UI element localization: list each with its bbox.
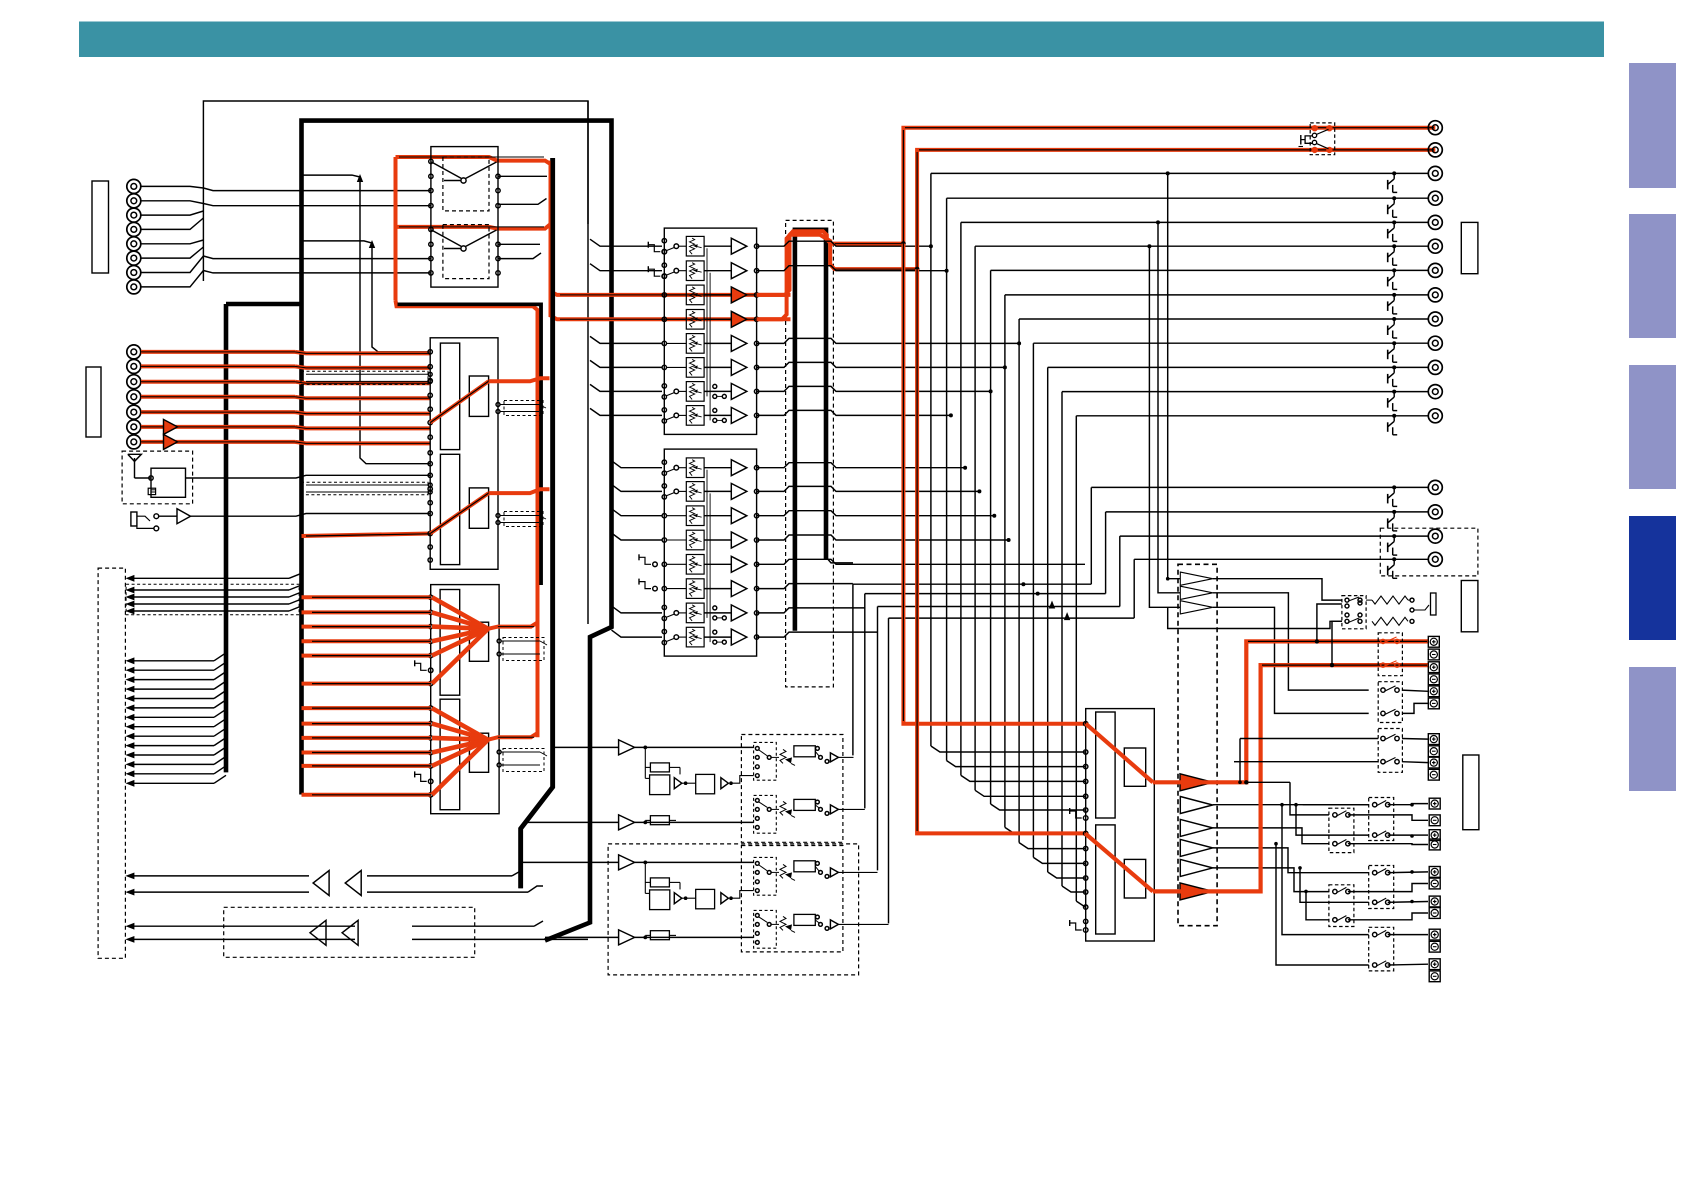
channel block 2 <box>662 449 759 656</box>
input connectors group 1 <box>127 179 141 294</box>
return path 2 <box>125 907 588 957</box>
sidebar tab 3 <box>1629 365 1676 489</box>
stin2 insert <box>496 512 546 527</box>
wires group1 to pan block <box>203 188 431 273</box>
bus riser wires <box>931 173 1086 907</box>
pan2 V <box>432 230 497 251</box>
red H2b hug <box>396 301 538 738</box>
red monitor cores <box>1248 641 1427 665</box>
master input pins <box>1070 722 1088 933</box>
stin fader 1 <box>440 343 459 450</box>
n dashed box <box>786 220 834 687</box>
wire thin bus drop <box>587 101 589 624</box>
mono mic input <box>131 509 191 531</box>
red rec cores <box>903 128 1434 831</box>
teal header bar <box>79 22 1604 58</box>
aux module A <box>526 740 865 833</box>
red rec bus L <box>901 128 1435 724</box>
monitor row wires <box>1166 577 1342 629</box>
mix1 insert <box>497 638 547 661</box>
right label box 3 <box>1463 755 1479 830</box>
mix fader 1 <box>440 590 460 696</box>
thick bus overlays <box>398 158 553 888</box>
red stin2 diag <box>430 493 488 533</box>
wire receiver out <box>186 475 431 478</box>
master pan L <box>1124 748 1145 786</box>
output row wires <box>931 173 1394 415</box>
gnd block1 <box>648 242 666 279</box>
wire after sum L <box>1246 781 1290 783</box>
aux B right dashed box <box>741 846 843 952</box>
wire monitor v1 <box>302 174 431 464</box>
wires input group1 fan <box>141 186 203 287</box>
mix2 insert <box>497 749 547 772</box>
wires strip feeds <box>590 239 662 637</box>
red stin1 out <box>489 378 550 381</box>
sidebar tab 2 <box>1629 214 1676 338</box>
switch boxes col x=1368.7 <box>1369 798 1394 971</box>
wire thin bus top <box>203 101 588 281</box>
right label box 2 <box>1461 581 1478 632</box>
monitor sum amps <box>1180 572 1368 713</box>
red wires bus to mix pins <box>302 597 431 795</box>
thick bus H2a <box>226 302 302 307</box>
pan1 dashed <box>443 157 489 211</box>
stin input pins <box>428 350 432 563</box>
summing dashed box <box>1178 564 1217 925</box>
stin block box <box>430 338 498 570</box>
strip output wires <box>757 241 1085 637</box>
monitor dots <box>1244 639 1334 784</box>
channel block 1 <box>662 228 759 434</box>
rec speaker terminals <box>1429 798 1440 982</box>
red mix fan 1 <box>432 597 488 795</box>
red over n 1 <box>757 231 904 295</box>
input group 2 label box <box>86 367 101 437</box>
master fader R <box>1096 825 1115 934</box>
mix block box <box>431 585 499 814</box>
red mix out 1 <box>488 623 538 629</box>
thick bus V1b diag <box>521 158 553 888</box>
switch boxes col x=1328.9 <box>1329 808 1354 926</box>
aux bus rows <box>826 487 1134 620</box>
lower monitor speakers <box>1234 682 1439 784</box>
mix input pins <box>415 595 433 797</box>
wires pan pins right <box>498 176 547 258</box>
wire mono to strip <box>191 514 431 517</box>
red wires group 2 <box>141 352 295 442</box>
input group 1 label box <box>92 181 109 273</box>
red pan1 feed <box>396 157 551 164</box>
red stin1 diag <box>430 381 488 422</box>
red exit row3 <box>551 292 791 295</box>
stin insert loop 1 <box>301 371 432 384</box>
monitor bus drops <box>1147 171 1180 607</box>
stin insert loop 2 <box>301 482 432 494</box>
wire monitor v2 <box>302 240 431 352</box>
wireless receiver box <box>122 451 193 504</box>
pan block input pins <box>429 159 433 275</box>
right label box 1 <box>1461 222 1478 273</box>
monitor out rows <box>1091 487 1394 559</box>
gnd block2 rows <box>639 554 657 591</box>
red master diag L <box>1086 724 1153 783</box>
master box <box>1086 709 1155 941</box>
mix pan 2 <box>469 733 488 772</box>
red rec bus R <box>915 150 1436 834</box>
wires to io box top <box>125 573 301 615</box>
output connectors monitor <box>1388 480 1443 531</box>
red exit row4 <box>551 316 791 319</box>
io dashed box <box>98 568 125 958</box>
aux A right dashed box <box>741 735 843 843</box>
red wires group2 to strip <box>295 352 430 444</box>
rec switch contacts <box>1333 801 1390 968</box>
aux B dashed box <box>608 844 859 975</box>
sidebar tab 4 <box>1629 516 1676 640</box>
return path 1 <box>125 871 543 896</box>
pan2 dashed <box>443 225 489 279</box>
red mix out 2 <box>488 733 538 740</box>
pan block box <box>431 147 498 288</box>
mix fader 2 <box>440 699 460 810</box>
master sum amps <box>1180 797 1368 892</box>
monitor speaker terminals <box>1428 636 1439 684</box>
output connectors dashed pair <box>1380 528 1478 578</box>
red riser pan block <box>394 157 398 301</box>
aux module B <box>521 855 889 948</box>
sidebar tab 1 <box>1629 63 1676 188</box>
stin pan 1 <box>469 376 488 416</box>
thick bus V2 <box>224 304 229 772</box>
pan1 V <box>432 162 497 183</box>
stin fader 2 <box>440 454 459 564</box>
red pan2 feed <box>396 224 551 229</box>
phones circuit <box>1342 593 1436 629</box>
red rec connectors <box>1428 121 1442 157</box>
rec matrix wires <box>1274 782 1428 965</box>
pan block output pins <box>496 174 500 275</box>
red over n 2 <box>757 235 918 319</box>
red sum amp R <box>1153 665 1428 900</box>
thick n <box>795 230 826 631</box>
thick bus H1/V3 <box>302 121 612 941</box>
line amps group2 <box>164 419 178 449</box>
sidebar tab 5 <box>1629 667 1676 791</box>
mix pan 1 <box>469 622 488 661</box>
rec out switch <box>1299 123 1335 155</box>
red n cores <box>835 244 917 270</box>
stin pan 2 <box>469 488 488 528</box>
thick bus H2b + corner down <box>398 304 542 585</box>
input connectors group 2 <box>127 345 141 449</box>
output connectors main <box>1388 166 1443 434</box>
red sum amp L <box>1153 641 1428 790</box>
red master diag R <box>1085 833 1153 891</box>
red hug V1b <box>549 161 553 317</box>
stin1 insert <box>496 401 546 416</box>
phones feed wires <box>1317 604 1342 665</box>
wires io box middle <box>125 653 226 787</box>
aux drop wires <box>853 584 889 923</box>
master fader L <box>1096 712 1115 818</box>
red wire stin2 <box>302 534 431 537</box>
red stin2 out <box>489 489 550 493</box>
monitor speaker switches <box>1378 633 1402 676</box>
master pan R <box>1124 859 1145 898</box>
wire core pan feeds <box>399 157 757 319</box>
